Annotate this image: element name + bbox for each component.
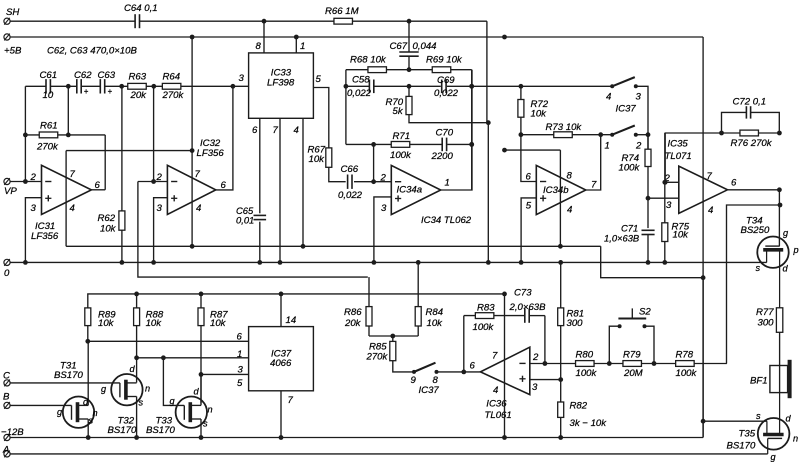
svg-text:5: 5 — [237, 378, 243, 389]
svg-text:5: 5 — [526, 201, 532, 212]
svg-text:BS170: BS170 — [54, 370, 83, 381]
svg-text:R61: R61 — [40, 121, 58, 132]
svg-text:R86: R86 — [344, 307, 362, 318]
node V- IC33 junction — [301, 244, 306, 249]
wire IC31 feedback — [104, 135, 106, 190]
svg-text:1,0×63B: 1,0×63B — [604, 233, 639, 244]
svg-text:R71: R71 — [393, 131, 411, 142]
node R71 left junction — [371, 142, 376, 147]
capacitor C69 — [441, 80, 443, 94]
svg-text:TL071: TL071 — [665, 151, 692, 162]
svg-text:270k: 270k — [162, 90, 185, 101]
resistor R83 — [475, 313, 494, 319]
wire switch3 to R74 drop — [636, 86, 648, 149]
transistor T34 — [757, 237, 788, 268]
svg-text:IC37: IC37 — [616, 104, 637, 115]
svg-text:C58: C58 — [352, 75, 370, 86]
capacitor C67 — [408, 21, 410, 52]
wire R74 to C71 — [647, 167, 649, 229]
resistor R62 — [121, 86, 123, 211]
wire IC32 pin3 ground leg — [154, 198, 168, 263]
wire C66 to IC34a pin2 — [354, 181, 391, 183]
svg-text:IC37: IC37 — [419, 385, 440, 396]
svg-text:3: 3 — [381, 203, 387, 214]
svg-text:R68 10k: R68 10k — [350, 55, 387, 66]
svg-text:10k: 10k — [673, 230, 690, 241]
resistor R73 — [554, 132, 573, 138]
resistor R72 — [520, 86, 522, 99]
svg-text:6: 6 — [731, 177, 737, 188]
svg-text:0: 0 — [4, 268, 10, 279]
capacitor C63 — [99, 79, 101, 93]
svg-text:100k: 100k — [619, 163, 641, 174]
svg-text:p: p — [793, 245, 799, 255]
svg-text:20k: 20k — [130, 90, 148, 101]
svg-text:3: 3 — [238, 365, 244, 376]
resistor R71 — [391, 142, 410, 148]
wire IC34b pin5 ground leg — [521, 198, 536, 263]
node +5 rail end junction — [502, 292, 507, 297]
node SH-pin8 junction — [262, 19, 267, 24]
node output junction — [777, 187, 782, 192]
svg-text:C64 0,1: C64 0,1 — [124, 3, 158, 14]
resistor R77 — [776, 308, 782, 333]
svg-text:R77: R77 — [756, 307, 774, 318]
svg-text:7: 7 — [288, 395, 294, 406]
node R74 top junction — [646, 132, 651, 137]
node C70 right junction — [469, 142, 474, 147]
capacitor C66 — [347, 175, 349, 189]
svg-text:6: 6 — [237, 331, 243, 342]
svg-text:g: g — [170, 396, 176, 406]
wire VP to IC31 pin2 — [10, 181, 41, 183]
svg-text:C69: C69 — [437, 75, 455, 86]
svg-text:VP: VP — [4, 186, 17, 197]
wire R68 left leg — [345, 70, 347, 145]
svg-text:4: 4 — [606, 92, 611, 103]
node +5B junction a — [190, 35, 195, 40]
wire IC35 output — [728, 189, 780, 191]
node C63-R63 junction — [119, 84, 124, 89]
capacitor C64 — [134, 14, 136, 28]
node -12B terminal — [4, 434, 10, 440]
resistor R68 — [368, 67, 387, 73]
node fb-C72 left junction — [719, 131, 724, 136]
svg-text:BS170: BS170 — [108, 425, 137, 436]
wire R77 to BF1 — [779, 332, 781, 392]
resistor R79 — [623, 361, 642, 367]
wire 4066 pin6 — [88, 340, 249, 342]
svg-text:n: n — [145, 384, 150, 394]
capacitor C70 — [441, 138, 443, 152]
svg-text:10k: 10k — [531, 109, 548, 120]
svg-text:0,01: 0,01 — [236, 214, 254, 225]
wire R71 to pin2 leg — [373, 144, 375, 181]
svg-text:C73: C73 — [514, 287, 532, 298]
wire C65 to ground — [259, 222, 261, 263]
node gnd R81 — [558, 260, 563, 265]
svg-text:14: 14 — [286, 315, 297, 326]
svg-text:100k: 100k — [576, 368, 598, 379]
svg-text:R62: R62 — [98, 213, 116, 224]
node rail 4066 pin14 junction — [279, 292, 284, 297]
svg-text:10k: 10k — [98, 318, 115, 329]
wire V- rail — [66, 245, 601, 247]
transistor T31 — [63, 397, 94, 428]
resistor R66 — [334, 18, 353, 24]
svg-text:270k: 270k — [36, 141, 59, 152]
resistor R82 — [558, 402, 564, 417]
pushbutton S2 — [618, 318, 646, 320]
wire R68 R69 row — [346, 69, 472, 71]
svg-text:C63: C63 — [98, 70, 116, 81]
capacitor C61 — [45, 79, 47, 93]
svg-text:d: d — [786, 414, 792, 424]
svg-text:LF356: LF356 — [31, 231, 59, 242]
node gnd SH drop — [486, 260, 491, 265]
svg-text:10k: 10k — [146, 318, 163, 329]
svg-text:SH: SH — [6, 7, 19, 18]
svg-text:1: 1 — [300, 41, 305, 52]
wire IC33 pin5 to R67 — [313, 88, 328, 148]
node output-C70 junction — [469, 142, 474, 147]
wire SH rail left — [10, 20, 135, 22]
node gnd IC34b pin5 — [519, 260, 524, 265]
op-amp IC37 4066 box — [249, 327, 314, 391]
svg-text:0,022: 0,022 — [338, 190, 363, 201]
resistor R67 — [326, 148, 332, 167]
svg-text:3: 3 — [157, 203, 163, 214]
wire IC32 output to IC33 pin3 — [216, 86, 233, 190]
svg-text:4: 4 — [708, 205, 713, 216]
svg-text:2: 2 — [156, 172, 163, 183]
wire 4066 pin1 — [137, 357, 249, 359]
capacitor C68 — [368, 80, 370, 94]
wire IC36 pin3 — [530, 379, 561, 381]
node SH drop R70 junction — [486, 120, 491, 125]
node C61-C62 junction — [66, 84, 71, 89]
svg-text:BS250: BS250 — [741, 225, 770, 236]
wire +5B rail — [10, 36, 703, 38]
svg-text:7: 7 — [70, 169, 76, 180]
capacitor C72 — [722, 112, 747, 133]
wire IC34a output — [441, 70, 472, 190]
svg-text:R64: R64 — [163, 72, 181, 83]
node C69 row right junction — [469, 84, 474, 89]
svg-text:R82: R82 — [570, 401, 588, 412]
node gnd IC32 pin3 — [151, 260, 156, 265]
svg-text:R80: R80 — [576, 349, 594, 360]
node A terminal — [4, 451, 10, 457]
node gnd IC34a pin3 — [372, 260, 377, 265]
node +5B junction b — [294, 35, 299, 40]
wire IC31 output — [91, 189, 105, 191]
svg-text:d: d — [194, 387, 200, 397]
wire input row — [25, 85, 46, 87]
svg-text:0,022: 0,022 — [434, 88, 459, 99]
transistor T32 — [111, 374, 142, 405]
svg-text:R63: R63 — [129, 72, 147, 83]
svg-text:s: s — [203, 419, 208, 429]
transistor T33 — [176, 397, 207, 428]
svg-text:R78: R78 — [676, 349, 694, 360]
wire R67 to C66 — [329, 167, 346, 181]
resistor R87 — [200, 294, 202, 308]
svg-text:R83: R83 — [477, 303, 495, 314]
node R61 left junction — [23, 133, 28, 138]
node pin2-C73 junction — [543, 361, 548, 366]
resistor R78 — [676, 361, 695, 367]
svg-text:C: C — [3, 370, 10, 381]
svg-text:2: 2 — [380, 172, 387, 183]
svg-text:10k: 10k — [210, 318, 227, 329]
resistor R63 — [128, 83, 147, 89]
node V+ IC32 junction — [190, 148, 195, 153]
node IC35 pin2 junction — [663, 180, 668, 185]
svg-text:R79: R79 — [623, 349, 641, 360]
resistor R70 — [408, 86, 410, 96]
wire R83 left leg — [463, 316, 465, 372]
wire IC31 supply line — [65, 151, 67, 247]
wire IC33 pin7 — [279, 118, 281, 262]
svg-text:2: 2 — [635, 141, 642, 152]
node R82 -12B junction — [558, 435, 563, 440]
svg-text:100k: 100k — [473, 322, 495, 333]
svg-text:3: 3 — [239, 73, 245, 84]
svg-text:3: 3 — [532, 382, 538, 393]
wire R69 right leg — [471, 70, 473, 190]
svg-text:2: 2 — [532, 352, 539, 363]
wire C61 left leg — [24, 86, 26, 181]
svg-text:n: n — [93, 408, 98, 418]
svg-text:C62: C62 — [74, 70, 92, 81]
node rail R88 junction — [134, 292, 139, 297]
switch IC37 pins 4-3 — [610, 84, 614, 88]
node 4066 pin7 -12B junction — [279, 435, 284, 440]
svg-text:4: 4 — [567, 205, 572, 216]
capacitor C62 — [76, 79, 78, 93]
wire IC36 pin2 row — [530, 363, 727, 365]
wire R70 to SH drop — [409, 115, 488, 123]
wire R73 row — [521, 134, 554, 136]
svg-text:LF398: LF398 — [267, 77, 295, 88]
svg-text:2,0×63B: 2,0×63B — [509, 302, 547, 313]
svg-text:270k: 270k — [366, 352, 389, 363]
op-amp IC34b — [536, 165, 586, 214]
svg-text:g: g — [57, 407, 63, 417]
svg-text:1: 1 — [237, 349, 242, 360]
wire 4066 pin3-5 — [201, 373, 249, 375]
svg-text:s: s — [756, 411, 761, 421]
wire IC35 feedback up — [665, 133, 779, 182]
svg-text:3: 3 — [666, 200, 672, 211]
node V+ tap junction — [502, 148, 507, 153]
resistor R88 — [136, 294, 138, 308]
svg-text:10: 10 — [43, 90, 54, 101]
node output-C69 junction — [469, 84, 474, 89]
node gnd IC33 pin7 — [278, 260, 283, 265]
svg-text:9: 9 — [411, 375, 417, 386]
node pin1 T33gate junction — [161, 355, 166, 360]
wire -12B rail — [10, 437, 703, 439]
svg-text:1: 1 — [605, 141, 610, 152]
node R85 top junction — [390, 334, 395, 339]
svg-text:IC34b: IC34b — [543, 185, 569, 196]
svg-text:10k: 10k — [427, 318, 444, 329]
node IC36 supply -12B junction — [502, 435, 507, 440]
svg-text:BS170: BS170 — [146, 425, 175, 436]
svg-text:C67: C67 — [390, 41, 408, 52]
wire 4066 pin7 — [280, 391, 282, 438]
wire R63R64 to pin2 leg — [153, 86, 155, 181]
node gnd C65 — [257, 260, 262, 265]
svg-text:20M: 20M — [623, 368, 643, 379]
wire IC35 pin2 — [665, 181, 679, 183]
svg-text:+5B: +5B — [4, 46, 22, 57]
resistor R76 — [740, 130, 759, 136]
node R89 bottom junction — [85, 339, 90, 344]
node fb-R76 right junction — [777, 131, 782, 136]
node T32 source -12B junction — [134, 435, 139, 440]
wire T33 gate drop — [163, 358, 184, 406]
node gnd R62 — [120, 260, 125, 265]
svg-text:7: 7 — [195, 169, 201, 180]
wire IC35 supply line — [702, 37, 704, 438]
wire R83 C73 row — [464, 315, 525, 317]
op-amp IC32 — [167, 165, 215, 214]
svg-text:IC34 TL062: IC34 TL062 — [421, 215, 472, 226]
resistor R74 — [647, 135, 649, 150]
node -12B drop junction — [701, 275, 706, 280]
resistor R80 — [576, 361, 595, 367]
node pin3 junction — [199, 372, 204, 377]
wire IC32 supply line — [191, 37, 193, 246]
svg-text:d: d — [130, 364, 136, 374]
wire V- link to -12B drop — [601, 246, 703, 277]
wire SH rail right — [139, 20, 487, 22]
node V- IC34b junction — [558, 244, 563, 249]
wire A rail — [10, 453, 768, 455]
wire IC34a pin3 ground leg — [374, 197, 391, 263]
svg-text:6: 6 — [526, 172, 532, 183]
op-amp IC36 — [480, 347, 529, 394]
wire gate feedback to R78 — [727, 205, 781, 364]
svg-text:4: 4 — [294, 125, 299, 136]
svg-text:g: g — [771, 452, 777, 462]
svg-text:0,044: 0,044 — [413, 41, 437, 52]
svg-text:1: 1 — [445, 178, 450, 189]
wire C62 top leg — [67, 86, 69, 135]
wire IC34b pin6 leg — [521, 135, 536, 182]
svg-text:s: s — [139, 397, 144, 407]
wire 4066 pin14 — [280, 294, 282, 327]
svg-text:4: 4 — [196, 203, 201, 214]
svg-text:−12B: −12B — [1, 427, 24, 438]
wire V+ line right — [505, 149, 561, 151]
node +5B terminal — [4, 34, 10, 40]
capacitor C71 — [642, 229, 655, 231]
node C68 row left junction — [344, 84, 349, 89]
wire switch2 to R74 — [636, 134, 648, 136]
wire IC36 supply line — [504, 294, 506, 438]
svg-text:R66 1M: R66 1M — [325, 6, 359, 17]
svg-text:7: 7 — [492, 351, 498, 362]
op-amp IC31 — [42, 165, 92, 214]
svg-text:2200: 2200 — [431, 151, 454, 162]
svg-text:C72 0,1: C72 0,1 — [733, 97, 767, 108]
svg-text:8: 8 — [256, 41, 262, 52]
svg-text:+: + — [84, 87, 89, 96]
node VP junction — [23, 179, 28, 184]
svg-text:LF356: LF356 — [197, 148, 225, 159]
capacitor C65 — [254, 214, 267, 216]
node R63-R64 junction — [151, 84, 156, 89]
node R72-R73 junction — [519, 132, 524, 137]
svg-text:BS170: BS170 — [727, 440, 756, 451]
wire C66 row — [345, 181, 347, 183]
node VP terminal — [4, 178, 10, 184]
svg-text:10k: 10k — [309, 154, 326, 165]
resistor R61 — [25, 134, 105, 136]
node row-IC33 pin3 junction — [231, 84, 236, 89]
wire IC33 pin6 — [259, 118, 261, 213]
svg-text:R84: R84 — [426, 307, 444, 318]
wire C rail to T32 gate — [10, 382, 120, 384]
node gate fb junction — [778, 203, 783, 208]
svg-text:R69 10k: R69 10k — [426, 55, 463, 66]
svg-text:BF1: BF1 — [750, 376, 768, 387]
node 0 terminal — [4, 259, 10, 265]
svg-text:6: 6 — [470, 361, 476, 372]
svg-text:300: 300 — [758, 318, 775, 329]
wire C68 C69 row — [346, 85, 369, 87]
svg-text:TL061: TL061 — [485, 410, 512, 421]
node gnd R84 — [416, 260, 421, 265]
svg-text:7: 7 — [591, 180, 597, 191]
svg-text:4: 4 — [70, 203, 75, 214]
wire -12B riser — [702, 278, 704, 438]
svg-text:6: 6 — [252, 125, 258, 136]
node R61 right junction — [66, 133, 71, 138]
node +5B junction c — [502, 35, 507, 40]
wire R86 R84 bottom — [369, 335, 418, 337]
resistor R86 — [368, 277, 370, 307]
wire IC34b supply line — [559, 150, 561, 246]
svg-text:6: 6 — [221, 180, 227, 191]
svg-text:3k − 10k: 3k − 10k — [570, 418, 608, 429]
node output R83 junction — [461, 370, 466, 375]
node pin3-R81R82 junction — [558, 377, 563, 382]
svg-text:C62, C63 470,0×10B: C62, C63 470,0×10B — [47, 46, 137, 57]
node pin1 T32 junction — [134, 355, 139, 360]
svg-text:T35: T35 — [739, 429, 756, 440]
wire V+ line left — [66, 150, 192, 152]
wire IC36 output — [437, 371, 481, 373]
svg-text:g: g — [783, 228, 789, 238]
svg-text:5k: 5k — [393, 106, 404, 117]
wire IC35 pin3 — [648, 197, 679, 199]
svg-text:C70: C70 — [436, 128, 454, 139]
wire T35 source link — [703, 420, 767, 422]
wire IC31 pin3 ground leg — [25, 198, 41, 263]
wire C73 right leg — [544, 316, 546, 364]
svg-text:s: s — [89, 415, 94, 425]
node SH-C67 junction — [407, 19, 412, 24]
svg-text:d: d — [783, 263, 789, 273]
node pin2 junction — [371, 179, 376, 184]
wire T34 gate — [778, 190, 780, 246]
svg-text:4066: 4066 — [270, 358, 292, 369]
